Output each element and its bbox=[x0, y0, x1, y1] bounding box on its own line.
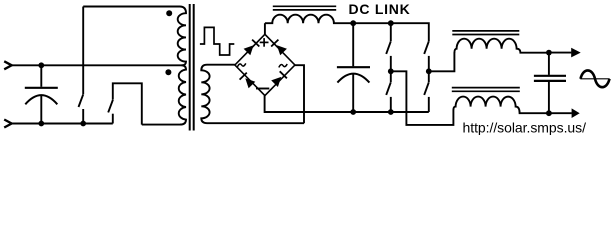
inductor L2 upper output filter bbox=[454, 39, 549, 53]
switch S2 H-bridge right-top bbox=[424, 41, 429, 71]
transformer T1 core bbox=[190, 4, 194, 131]
AC sine symbol axis line bbox=[580, 78, 609, 80]
wire bridge + output up to DC link rail bbox=[264, 23, 266, 34]
wire bridge - output down to negative rail bbox=[265, 96, 429, 112]
capacitor C2 DC link (electrolytic) bbox=[337, 23, 370, 112]
inductor L1 DC link choke bbox=[265, 15, 429, 42]
wire to transformer lower primary bbox=[142, 124, 181, 126]
label - at bridge bottom bbox=[256, 88, 269, 90]
node: dot H-bridge left leg bottom bbox=[388, 109, 394, 115]
node: dot H-bridge left leg top bbox=[388, 20, 394, 26]
inductor L3 core bbox=[452, 88, 520, 92]
wire bottom input rail bbox=[12, 123, 113, 125]
wire right midpoint to upper filter bbox=[429, 53, 455, 72]
switch S1 H-bridge left-top bbox=[386, 23, 391, 71]
svg-text:DC LINK: DC LINK bbox=[349, 1, 411, 17]
node: dot output cap top bbox=[546, 50, 552, 56]
svg-text:http://solar.smps.us/: http://solar.smps.us/ bbox=[463, 119, 587, 135]
inductor L2 core bbox=[452, 31, 519, 35]
capacitor C1 (input electrolytic) bbox=[25, 65, 58, 123]
label ~ at bridge right bbox=[279, 64, 287, 67]
output terminal arrow top bbox=[549, 48, 581, 58]
transformer T1 primary windings (top wire, upper winding, center tap, lower winding) bbox=[83, 7, 186, 125]
node: junction dot switch Q1 to bottom rail bbox=[80, 121, 86, 127]
inductor L1 core bbox=[273, 6, 336, 10]
diode D4 (bottom-right) bbox=[271, 71, 287, 87]
diode D1 (left-top) bbox=[244, 40, 260, 56]
switch Q1 (left leg, to upper primary) bbox=[79, 7, 84, 124]
node: junction dot top of capacitor C1 bbox=[38, 62, 44, 68]
wire top input rail to transformer center tap bbox=[12, 64, 185, 66]
node: dot H-bridge left midpoint bbox=[388, 68, 394, 74]
transformer T1 secondary winding bbox=[201, 65, 304, 124]
label + at bridge top bbox=[260, 38, 269, 47]
diode D2 (right-top) bbox=[271, 40, 287, 56]
capacitor C3 output filter bbox=[534, 53, 566, 114]
node: dot output cap bottom bbox=[546, 110, 552, 116]
node: dot DC link cap top bbox=[350, 20, 356, 26]
output terminal arrow bottom bbox=[549, 108, 580, 118]
waveform glyph: quasi-square wave at secondary bbox=[200, 27, 234, 55]
polarity dot upper primary bbox=[166, 10, 172, 16]
switch Q2 (right leg, to lower primary) with raised wire bbox=[108, 83, 142, 124]
inductor L3 lower output filter bbox=[453, 97, 549, 114]
switch S3 H-bridge left-bottom bbox=[386, 71, 391, 112]
wire left midpoint to lower filter (crosses negative rail) bbox=[391, 71, 454, 125]
input terminal arrow top bbox=[4, 61, 12, 69]
bridge rectifier diamond bbox=[235, 34, 295, 95]
diode D3 (bottom-left) bbox=[240, 73, 256, 89]
input terminal arrow bottom bbox=[4, 120, 12, 128]
polarity dot lower primary bbox=[165, 69, 171, 75]
node: junction dot bottom of capacitor C1 bbox=[38, 121, 44, 127]
node: dot DC link cap bottom bbox=[350, 109, 356, 115]
AC sine symbol wave bbox=[581, 70, 610, 87]
node: dot H-bridge right midpoint bbox=[426, 68, 432, 74]
switch S4 H-bridge right-bottom bbox=[424, 71, 429, 112]
label ~ at bridge left bbox=[237, 63, 245, 66]
wire secondary return to bridge right vertex bbox=[295, 65, 304, 123]
